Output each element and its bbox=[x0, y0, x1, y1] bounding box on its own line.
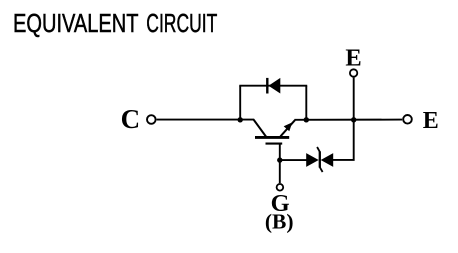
diode D1 cathode bar bbox=[266, 78, 268, 94]
zener Z1 bottom hook bbox=[320, 167, 323, 172]
wire gate lead down bbox=[279, 144, 281, 183]
terminal E top circle bbox=[350, 69, 357, 76]
wire emitter diagonal bbox=[280, 120, 295, 136]
wire E drop to zener bbox=[333, 120, 354, 160]
wire collector diagonal bbox=[254, 120, 267, 137]
terminal E right circle bbox=[403, 115, 412, 124]
svg-text:C: C bbox=[121, 104, 141, 134]
transistor Q1 top bar bbox=[255, 136, 289, 139]
wire diode loop top bbox=[239, 85, 307, 87]
svg-text:(B): (B) bbox=[265, 209, 294, 233]
wire E top branch bbox=[353, 78, 355, 121]
transistor Q1 gate bar bbox=[266, 143, 283, 145]
svg-text:EQUIVALENT: EQUIVALENT bbox=[13, 8, 139, 38]
terminal C circle bbox=[147, 115, 156, 124]
wire gate node to zener bbox=[280, 159, 307, 161]
zener Z1 center bar bbox=[319, 151, 321, 167]
node junction dot at emitter/diode bbox=[304, 117, 309, 122]
zener Z1 top hook bbox=[317, 147, 320, 152]
wire emitter stub and E rail bbox=[294, 119, 402, 121]
node junction dot at gate bbox=[277, 157, 282, 162]
wire C rail bbox=[157, 119, 255, 121]
diode D1 triangle bbox=[269, 78, 281, 94]
svg-text:E: E bbox=[345, 45, 361, 72]
zener Z1 right triangle bbox=[321, 153, 334, 167]
node junction dot at C/diode bbox=[238, 117, 243, 122]
transistor Q1 IGBT body bbox=[254, 120, 295, 144]
node junction dot at E rail bbox=[351, 117, 356, 122]
zener Z1 left triangle bbox=[306, 153, 319, 167]
svg-text:CIRCUIT: CIRCUIT bbox=[146, 8, 217, 38]
wire diode loop right leg bbox=[305, 86, 307, 120]
transistor Q1 emitter arrow bbox=[284, 122, 293, 131]
wire diode loop left leg bbox=[239, 86, 241, 120]
svg-text:E: E bbox=[423, 108, 439, 134]
terminal G circle bbox=[277, 184, 284, 191]
